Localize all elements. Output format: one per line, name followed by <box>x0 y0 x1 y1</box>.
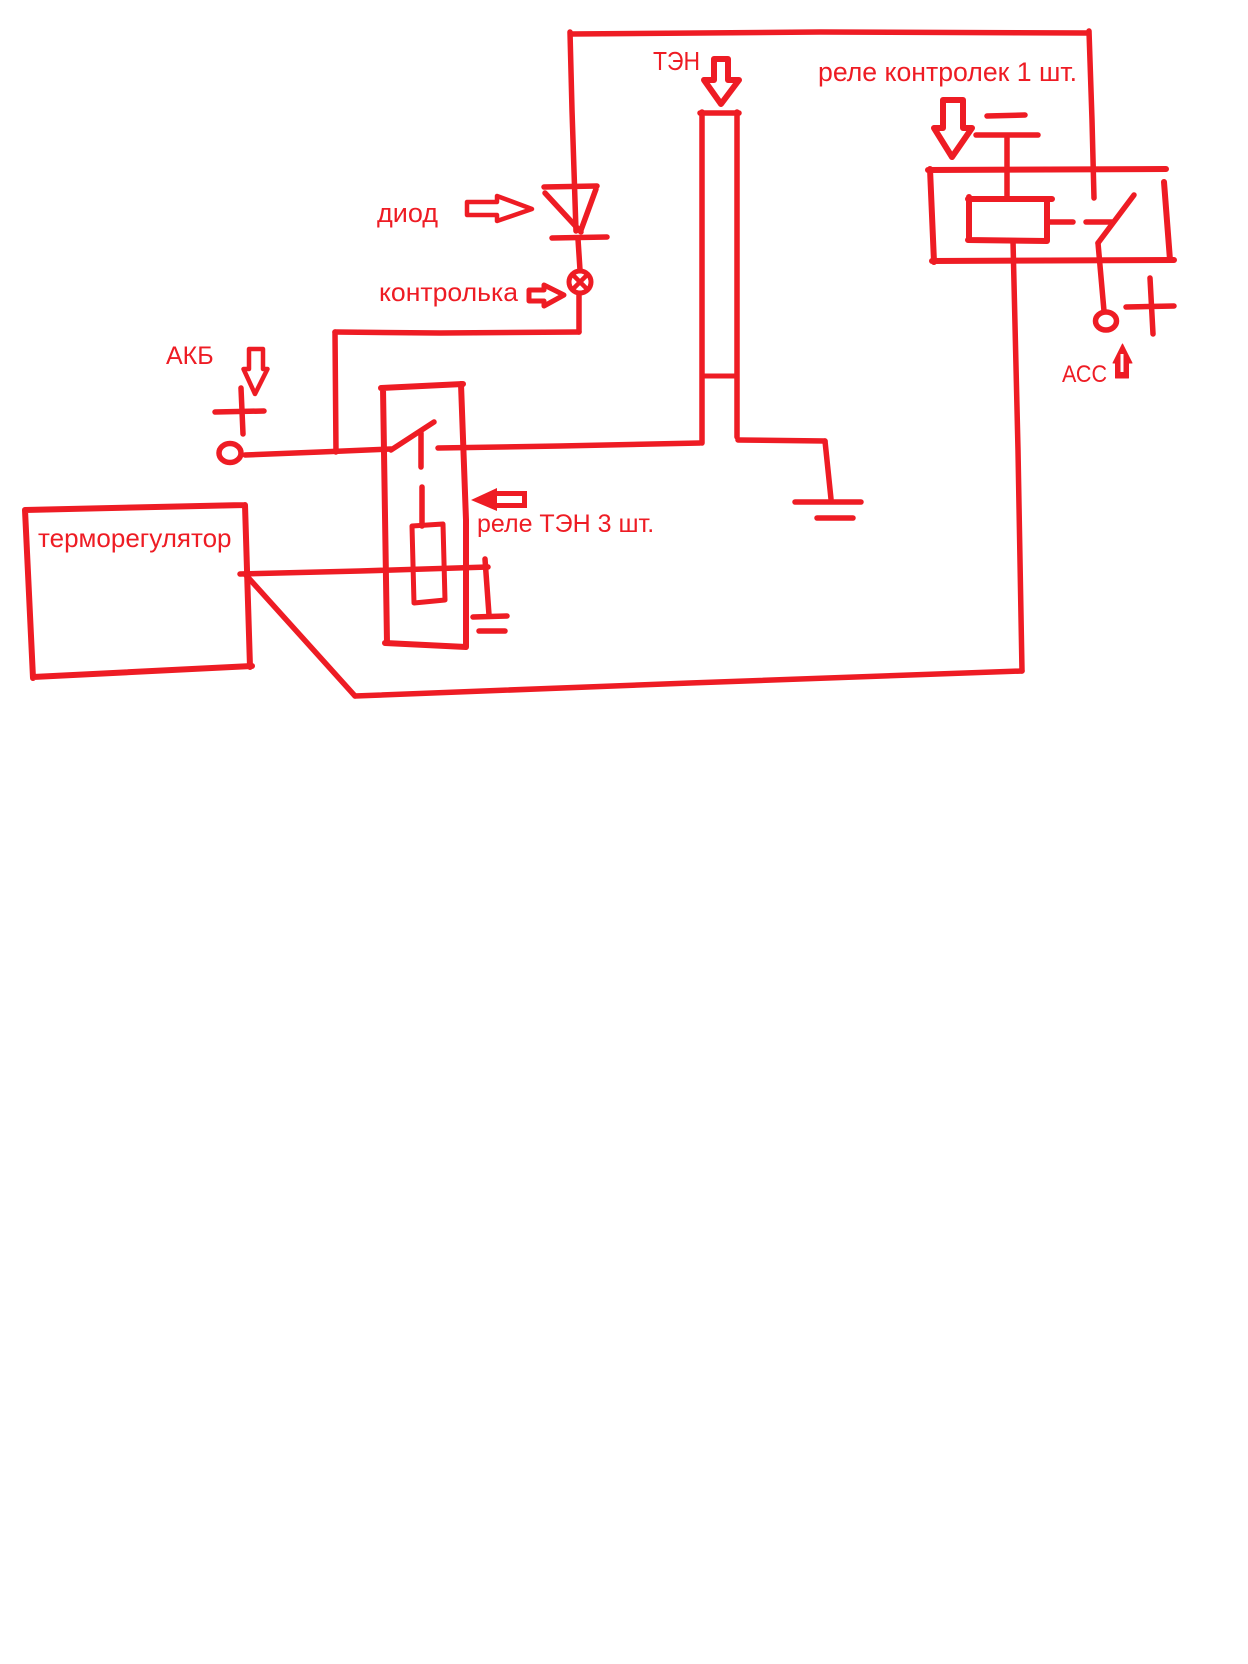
arrow down label TEN <box>704 59 739 104</box>
plus sign ACC horizontal <box>1126 306 1174 307</box>
svg-text:контролька: контролька <box>379 277 519 307</box>
wire lamp down <box>576 295 582 332</box>
relay kontrolek coil <box>968 197 1052 241</box>
wire tube to ground <box>738 440 825 441</box>
relay kontrolek contact dash2 <box>1086 219 1112 225</box>
AKB terminal circle <box>219 444 241 463</box>
relay TEN switch pivot pin <box>418 433 424 467</box>
TEN tube right side <box>734 112 740 437</box>
plus sign AKB vertical <box>241 388 243 434</box>
wire coil top stub <box>419 487 425 526</box>
wire stub down to ground <box>485 559 489 615</box>
wire battery to coil <box>1004 137 1010 199</box>
wire bottom horizontal <box>355 671 1022 696</box>
TEN tube top <box>700 110 739 116</box>
lamp контролька circle <box>569 271 591 293</box>
arrow down label relay kontrolek <box>934 100 972 157</box>
svg-text:реле контролек 1 шт.: реле контролек 1 шт. <box>818 57 1077 87</box>
arrow down label AKB <box>244 349 268 394</box>
wire diagonal to ground G2 <box>825 441 831 499</box>
wire right vertical from top into relay box <box>1089 31 1094 198</box>
wire relay to TEN tube <box>438 443 700 448</box>
svg-text:терморегулятор: терморегулятор <box>38 523 232 553</box>
TEN tube left side <box>699 112 705 443</box>
wire thermostat to ground stub <box>240 567 488 574</box>
wire top horizontal <box>571 32 1087 34</box>
svg-text:реле ТЭН 3 шт.: реле ТЭН 3 шт. <box>477 510 654 538</box>
thermostat box <box>25 505 252 678</box>
wire long vertical relay coil to bottom <box>1013 241 1022 671</box>
ground G1 bar2 <box>479 628 505 634</box>
svg-text:ТЭН: ТЭН <box>653 46 700 76</box>
svg-text:АСС: АСС <box>1062 361 1107 388</box>
relay TEN switch blade <box>391 422 434 450</box>
ACC terminal circle <box>1096 312 1117 330</box>
lamp контролька cross <box>573 275 587 289</box>
arrow right label kontrolka <box>529 285 564 306</box>
battery bar short <box>987 115 1025 116</box>
wire diode to lamp <box>578 239 580 270</box>
relay TEN box <box>381 384 466 647</box>
wire diagonal thermostat to bottom <box>245 574 355 696</box>
arrow left label rele TEN <box>471 488 527 511</box>
plus sign ACC vertical <box>1150 278 1153 334</box>
ground G1 bar1 <box>473 616 507 617</box>
relay kontrolek contact dash1 <box>1048 219 1073 225</box>
diode D1 anode bar <box>544 186 597 187</box>
wire AKB terminal to relay box <box>245 449 391 455</box>
TEN tube divider <box>702 374 737 379</box>
wire left vertical from top to diode <box>570 32 576 231</box>
svg-text:АКБ: АКБ <box>166 342 214 370</box>
ground G2 bar2 <box>817 515 853 521</box>
arrow up label ACC <box>1113 344 1132 378</box>
arrow right label diod <box>467 196 532 221</box>
diode D1 triangle left side <box>545 193 581 232</box>
wire lamp to left corner <box>335 332 579 333</box>
battery bar long <box>976 132 1038 138</box>
wire switch to ACC terminal <box>1098 243 1104 311</box>
relay kontrolek box <box>928 169 1174 262</box>
ground G2 bar1 <box>795 499 861 505</box>
relay kontrolek switch blade <box>1098 195 1134 243</box>
diode D1 cathode bar <box>552 237 607 238</box>
wire corner down to AKB wire <box>335 332 336 452</box>
svg-text:диод: диод <box>377 198 438 228</box>
diode D1 triangle right side <box>581 189 596 230</box>
relay TEN coil <box>412 524 445 603</box>
plus sign AKB horizontal <box>215 411 264 412</box>
